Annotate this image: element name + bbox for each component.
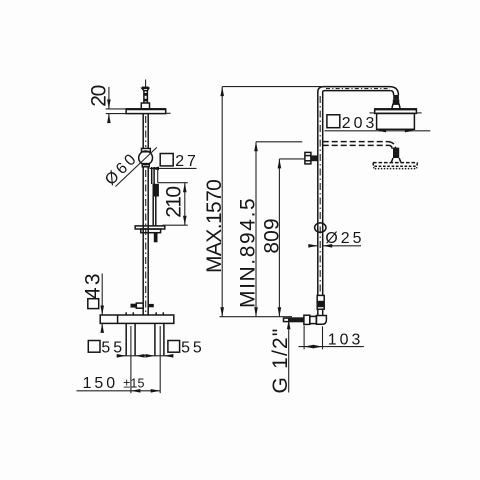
ball joint on riser <box>315 223 326 232</box>
809 extension line <box>279 158 304 160</box>
head plate (edge view) <box>126 109 171 114</box>
slider bracket <box>135 226 165 233</box>
103 extension lines <box>304 326 322 350</box>
svg-text:103: 103 <box>328 332 364 349</box>
head connector threads <box>393 95 399 100</box>
finial stem <box>144 91 148 103</box>
label G 1/2 <box>269 327 292 393</box>
dimension MIN line <box>254 142 258 317</box>
svg-text:203: 203 <box>342 115 378 132</box>
G 1/2 leader line <box>287 320 291 393</box>
svg-text:43: 43 <box>82 271 105 299</box>
svg-text:G 1/2": G 1/2" <box>269 327 292 393</box>
pipe below union <box>318 309 323 315</box>
arm right elbow <box>390 87 399 95</box>
dimension 43 line <box>100 274 104 333</box>
hand shower head <box>153 184 159 197</box>
label MAX.1570 <box>203 180 226 273</box>
hand shower hose line <box>152 167 154 184</box>
dashed arm MIN position <box>323 142 396 150</box>
label 20 <box>88 85 111 106</box>
diverter handle <box>131 303 154 308</box>
head connector nut <box>393 100 400 105</box>
finial cap <box>142 88 149 91</box>
dimension 203 line <box>325 129 431 133</box>
head stem trapezoid <box>392 104 400 109</box>
upper pipe <box>143 114 148 149</box>
label square27 <box>160 153 199 170</box>
slider knob on riser <box>305 152 311 164</box>
label square55 right <box>168 340 205 357</box>
riser pipe <box>318 92 323 295</box>
extension lines 150 <box>131 326 160 393</box>
svg-text:MAX.1570: MAX.1570 <box>203 180 226 273</box>
dimension 809 line <box>278 159 282 317</box>
joint collar lower <box>142 164 149 167</box>
dashed position connector <box>391 148 400 163</box>
top arm <box>324 87 391 91</box>
label 150 pm15 <box>83 375 145 392</box>
bottom elbow <box>316 316 326 325</box>
svg-text:150: 150 <box>83 375 119 392</box>
MAX extension line <box>222 86 323 88</box>
dimension MAX line <box>220 87 224 317</box>
label 809 <box>261 218 284 253</box>
label square203 <box>327 115 377 132</box>
ball joint <box>139 151 153 165</box>
label square55 left <box>88 340 125 357</box>
wall connector blocks <box>304 315 317 324</box>
dimension D25 arrows <box>308 244 361 248</box>
svg-text:MIN.894.5: MIN.894.5 <box>237 197 260 308</box>
leader line for D60 <box>116 147 157 186</box>
hand shower handle <box>153 197 156 226</box>
svg-text:±15: ±15 <box>123 376 144 390</box>
pipe stubs above plate <box>126 312 163 315</box>
svg-text:809: 809 <box>261 218 284 253</box>
dimension square55 line with arrows <box>117 354 174 358</box>
label D25 <box>325 230 364 247</box>
dimension 150 line <box>77 389 161 393</box>
mounting plate <box>100 315 174 323</box>
svg-text:210: 210 <box>162 187 185 218</box>
svg-text:55: 55 <box>181 340 205 357</box>
mid pipe <box>143 167 148 315</box>
svg-text:20: 20 <box>88 85 111 106</box>
joint collar upper <box>142 148 151 151</box>
right supply pipe <box>155 323 164 355</box>
MIN extension line <box>256 141 302 143</box>
dimension 210 line <box>183 183 187 226</box>
label MIN.894.5 <box>237 197 260 308</box>
leader line 27 <box>150 167 197 171</box>
svg-text:55: 55 <box>101 340 125 357</box>
centerline above finial <box>145 80 147 88</box>
shower head top band <box>369 109 421 114</box>
top elbow <box>318 87 325 92</box>
union sleeve <box>317 295 324 309</box>
label square43 <box>82 271 105 308</box>
label D60 <box>102 149 142 189</box>
bottom extension line <box>220 316 293 318</box>
shower head body <box>377 113 415 129</box>
threaded nipple <box>289 317 304 322</box>
dimension 20 extension lines <box>106 109 126 114</box>
left supply pipe <box>126 323 135 355</box>
dimension 210 extensions <box>158 183 188 226</box>
label 103 <box>328 332 364 349</box>
dimension 103 line <box>299 345 364 349</box>
dashed head MIN position <box>373 163 417 169</box>
label 210 <box>162 187 185 218</box>
nipple tip <box>284 318 289 322</box>
dimension 20 line and arrows <box>107 87 111 123</box>
finial block <box>141 103 149 109</box>
bracket tab <box>154 233 158 243</box>
svg-text:27: 27 <box>175 153 199 170</box>
slider knob neck hatched <box>311 155 318 161</box>
extension vertical at 27 leader <box>157 168 159 182</box>
